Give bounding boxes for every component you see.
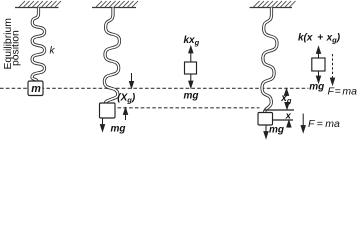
x level solid line	[265, 109, 295, 111]
box 2 mg arrow	[100, 118, 104, 131]
x dimension: up arrow under solid line	[287, 121, 291, 128]
svg-text:mg: mg	[269, 125, 284, 136]
svg-text:F=ma: F=ma	[328, 86, 358, 98]
box 2	[100, 103, 116, 118]
middle FBD: down arrow	[189, 74, 193, 88]
equilibrium dashed line (line A)	[0, 87, 309, 89]
svg-text:(Xg): (Xg)	[117, 93, 136, 105]
right FBD: dashed acceleration arrow	[330, 54, 334, 85]
xg dimension: up arrow under line A	[284, 89, 288, 96]
rotated label: Equilibrium position	[3, 18, 21, 69]
(Xg) dimension: up arrow below line B	[123, 108, 127, 120]
right FBD: box	[312, 58, 325, 71]
box 1 (mass m)	[28, 81, 43, 96]
right FBD: down arrow (mg)	[316, 71, 320, 83]
xg dimension: down arrow above line B	[285, 103, 289, 109]
svg-text:x: x	[285, 111, 292, 122]
svg-text:position: position	[10, 30, 21, 66]
F=ma arrow (bottom)	[301, 114, 305, 133]
ceiling 2	[92, 1, 138, 8]
middle FBD: box	[185, 62, 197, 74]
svg-text:m: m	[31, 83, 41, 95]
right FBD: up arrow	[316, 47, 320, 58]
spring 1	[32, 8, 45, 82]
box 3 mg arrow	[264, 125, 268, 138]
ceiling 3	[250, 1, 296, 8]
spring 3	[262, 8, 277, 113]
svg-text:mg: mg	[111, 124, 126, 135]
(Xg) dimension: down arrow above line A	[129, 73, 133, 88]
svg-text:mg: mg	[309, 81, 324, 92]
lower dashed line (line B)	[118, 107, 260, 109]
box 3	[258, 113, 273, 126]
svg-text:mg: mg	[184, 91, 199, 102]
ceiling 1	[15, 1, 61, 8]
middle FBD: up arrow	[189, 47, 193, 63]
box-top level line	[273, 119, 294, 121]
spring 2	[104, 8, 119, 104]
